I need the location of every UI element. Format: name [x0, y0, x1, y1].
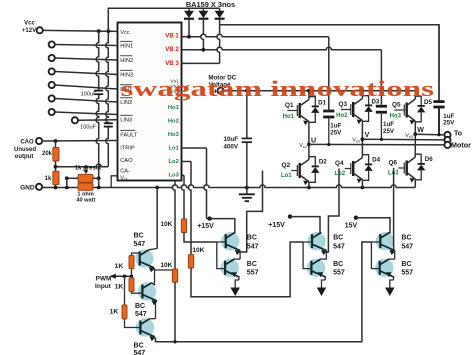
node U	[307, 143, 311, 147]
transistor BC547 chain2	[138, 282, 156, 300]
svg-text:Vcc: Vcc	[120, 30, 130, 36]
svg-text:1k: 1k	[45, 176, 52, 182]
transistor BC547 pair2	[307, 232, 325, 250]
wire VB3 line	[182, 62, 220, 64]
transistor BC557 pair2	[307, 259, 325, 277]
preset 1k wiper arrow	[85, 167, 87, 171]
svg-text:BC: BC	[134, 233, 144, 240]
node To Motor terminals	[444, 132, 450, 138]
svg-text:Ho2: Ho2	[336, 113, 348, 119]
wire DC+ bus	[224, 90, 416, 92]
svg-text:output: output	[15, 154, 34, 160]
svg-text:CAO: CAO	[120, 158, 133, 164]
wire Lo3 column	[182, 174, 185, 176]
svg-text:ITRIP: ITRIP	[120, 146, 135, 152]
transistor BC547 chain3	[136, 318, 154, 336]
node input terminal LIN1	[49, 82, 55, 88]
wire Vcc to IC	[43, 30, 118, 31]
svg-text:547: 547	[401, 243, 413, 250]
resistor 1k	[53, 171, 59, 185]
svg-text:D6: D6	[425, 156, 433, 163]
svg-text:25V: 25V	[383, 128, 395, 135]
diode BA159 D3t	[219, 8, 221, 11]
wire pair1 base bus	[217, 242, 226, 269]
transistor Q5 high side	[394, 109, 404, 111]
svg-text:BC: BC	[333, 235, 343, 242]
svg-text:Vs1: Vs1	[299, 143, 307, 149]
wire Vss stub	[111, 176, 117, 188]
svg-text:Lo3: Lo3	[168, 173, 179, 179]
node PWM input	[111, 275, 132, 277]
svg-text:Ho1: Ho1	[168, 105, 180, 111]
node input terminal HIN3	[49, 68, 55, 74]
node +15V supply flag	[354, 216, 358, 220]
svg-text:BC: BC	[134, 343, 144, 350]
diode D6	[415, 154, 421, 163]
preset 1k body	[78, 174, 93, 182]
svg-text:Vs2: Vs2	[352, 138, 360, 144]
ground pair1	[238, 277, 240, 280]
resistor R 1K a	[132, 253, 140, 256]
node input terminal HIN1	[49, 41, 55, 47]
wire chain2 emitter down	[155, 301, 157, 319]
svg-text:VB 1: VB 1	[165, 33, 179, 40]
svg-text:100uF: 100uF	[81, 92, 97, 98]
svg-text:Motor: Motor	[451, 141, 471, 150]
resistor 20k	[55, 141, 57, 148]
diode BA159 D1t	[188, 8, 190, 11]
svg-text:Ho2: Ho2	[168, 119, 179, 125]
svg-text:BC: BC	[333, 261, 343, 268]
svg-text:547: 547	[134, 241, 146, 248]
svg-text:VB 2: VB 2	[165, 46, 179, 53]
svg-text:Lo1: Lo1	[168, 146, 179, 152]
svg-text:Vs3: Vs3	[405, 133, 413, 139]
node W	[413, 132, 417, 136]
svg-text:Q4: Q4	[335, 160, 344, 167]
U1 right pin labels	[165, 33, 179, 179]
wire VB1 line	[182, 34, 329, 37]
svg-text:547: 547	[135, 311, 147, 318]
transistor BC557 pair1	[221, 259, 239, 277]
svg-text:swagatam innovations: swagatam innovations	[121, 76, 435, 101]
wire VB3 top rail to cell3	[220, 25, 439, 101]
svg-text:CA-: CA-	[120, 169, 130, 175]
wire pair2 base bus	[303, 242, 312, 269]
wire main ground rail	[42, 185, 415, 188]
svg-text:+12V: +12V	[22, 28, 36, 34]
svg-text:1uF: 1uF	[383, 121, 394, 128]
wire diode3 cathode drop	[217, 18, 220, 63]
svg-text:Q2: Q2	[282, 162, 291, 169]
svg-text:557: 557	[333, 270, 345, 277]
svg-text:CAO: CAO	[20, 140, 34, 146]
transistor Q6 low side	[398, 167, 404, 169]
transistor Q4 low side	[345, 168, 351, 170]
svg-text:1K: 1K	[110, 308, 119, 315]
svg-text:BC: BC	[401, 235, 411, 242]
svg-text:547: 547	[333, 243, 345, 250]
svg-text:Q1: Q1	[285, 102, 294, 109]
svg-text:BC: BC	[247, 261, 257, 268]
svg-text:BC: BC	[401, 261, 411, 268]
svg-text:Q3: Q3	[339, 101, 348, 108]
diode D3	[362, 96, 368, 105]
svg-text:HIN1: HIN1	[120, 44, 133, 50]
transistor BC547 chain1	[135, 249, 153, 267]
svg-text:BC: BC	[247, 235, 257, 242]
transistor Q2 low side	[291, 170, 297, 172]
svg-text:557: 557	[401, 270, 413, 277]
wire pair1 midpoint	[239, 251, 241, 260]
resistor 1 ohm 40 watt	[78, 183, 93, 190]
svg-text:LIN3: LIN3	[120, 118, 132, 124]
svg-text:10uF: 10uF	[224, 136, 239, 143]
wire left dropper 2 (Vcc to CA- line)	[106, 31, 109, 122]
svg-text:VB 3: VB 3	[165, 60, 179, 67]
transistor BC547 pair3	[376, 232, 394, 250]
svg-text:Q6: Q6	[389, 160, 398, 167]
svg-text:547: 547	[134, 350, 146, 355]
wire chain3 emitter to bottom bus	[156, 242, 372, 342]
svg-text:Lo2: Lo2	[334, 171, 345, 177]
svg-text:40 watt: 40 watt	[76, 198, 95, 204]
svg-text:1uF: 1uF	[330, 122, 341, 129]
transistor Q3 high side	[341, 109, 351, 111]
svg-text:V: V	[365, 132, 370, 139]
diode D1	[309, 97, 315, 106]
wire CA- line	[56, 164, 109, 167]
wire pair2 midpoint	[325, 251, 327, 260]
wire diode1 cathode drop	[188, 18, 190, 36]
wire diode2 cathode drop	[201, 18, 204, 49]
capacitor C1 100uF	[94, 90, 103, 92]
svg-text:Ho1: Ho1	[283, 114, 295, 120]
svg-text:400V: 400V	[224, 143, 239, 150]
wire diode anode rail	[108, 8, 219, 31]
svg-text:FAULT: FAULT	[120, 133, 138, 139]
node +15V supply flag	[208, 216, 212, 220]
svg-text:HIN2: HIN2	[120, 58, 133, 64]
wire VB2 line	[182, 47, 382, 50]
wire pair1 output to Lo1 gate	[240, 171, 262, 253]
op-amp U1 IC driver box	[118, 23, 182, 181]
resistor R 1K c	[124, 276, 126, 305]
capacitor C3 10uF 400V	[246, 91, 248, 138]
wire CAO line	[42, 140, 117, 143]
node input terminal HIN2	[49, 55, 55, 61]
svg-text:D2: D2	[319, 159, 327, 166]
capacitor C5 1uF 25V bootstrap	[380, 50, 382, 105]
diode D4	[362, 155, 368, 164]
node input terminal LIN2	[49, 95, 55, 101]
wire chain collector spine	[156, 188, 158, 249]
wire Lo1 column to +15V node	[182, 147, 207, 149]
diode D5	[415, 96, 421, 105]
svg-text:10K: 10K	[160, 221, 172, 228]
svg-text:15V: 15V	[345, 222, 358, 229]
ground earth symbol	[246, 188, 248, 195]
svg-text:D4: D4	[372, 157, 380, 164]
U1 left pin labels	[120, 30, 138, 182]
svg-text:547: 547	[247, 243, 259, 250]
svg-text:Q5: Q5	[392, 102, 401, 109]
wire 10K c bottom to bottom bus	[174, 282, 176, 342]
svg-text:+15V: +15V	[197, 223, 214, 230]
svg-text:100uF: 100uF	[80, 125, 96, 131]
svg-text:Lo1: Lo1	[281, 173, 292, 179]
ground pair2	[324, 277, 326, 280]
svg-text:20k: 20k	[42, 151, 53, 157]
svg-text:Lo2: Lo2	[168, 159, 178, 165]
capacitor C4 1uF 25V bootstrap	[328, 37, 330, 110]
capacitor C6 1uF 25V bootstrap	[438, 25, 440, 100]
wire chain1 emitter down	[154, 268, 156, 285]
svg-text:U: U	[311, 137, 316, 144]
transistor BC547 pair1	[221, 232, 239, 250]
diode BA159 D2t	[202, 8, 204, 11]
diode D2	[309, 157, 315, 166]
svg-text:557: 557	[247, 270, 259, 277]
svg-text:PWM: PWM	[96, 275, 112, 282]
resistor R 10K b	[188, 255, 193, 268]
wire pair3 output to Lo3 gate	[394, 168, 395, 252]
svg-text:25V: 25V	[330, 129, 342, 136]
svg-text:25V: 25V	[443, 119, 455, 126]
svg-text:Vcc: Vcc	[24, 21, 35, 27]
capacitor C2 100uF	[104, 122, 113, 124]
wire pair2 output to Lo2 gate	[326, 169, 339, 253]
svg-text:Input: Input	[95, 283, 112, 290]
svg-text:10K: 10K	[160, 262, 172, 269]
wire Lo2 column	[182, 161, 192, 163]
svg-text:1k preset: 1k preset	[75, 165, 101, 171]
svg-text:1K: 1K	[115, 284, 124, 291]
node V	[361, 137, 365, 141]
svg-text:1K: 1K	[115, 263, 124, 270]
node input terminal LIN3p	[49, 109, 55, 115]
svg-text:To: To	[454, 131, 462, 138]
ground pair3	[393, 277, 395, 280]
wire pair3 midpoint	[394, 251, 396, 260]
svg-text:BA159 X 3nos: BA159 X 3nos	[186, 0, 235, 9]
svg-text:+15V: +15V	[268, 222, 285, 229]
svg-text:BC: BC	[135, 303, 145, 310]
transistor BC557 pair3	[375, 259, 393, 277]
node input terminal LIN3	[72, 117, 78, 123]
svg-text:Unused: Unused	[14, 147, 36, 153]
svg-text:10K: 10K	[192, 247, 204, 254]
svg-text:W: W	[417, 127, 424, 134]
resistor R 10K c	[155, 269, 176, 270]
transistor Q1 high side	[287, 110, 297, 112]
wire pair3 base bus	[371, 242, 380, 269]
resistor R 1K b	[129, 278, 134, 292]
svg-text:Vss: Vss	[120, 176, 128, 182]
svg-text:Ho3: Ho3	[390, 114, 402, 120]
wire left dropper 1 (Vcc to preset)	[96, 31, 99, 90]
svg-text:Ho3: Ho3	[168, 132, 180, 138]
resistor R 10K a	[181, 219, 186, 233]
node +15V supply flag	[288, 214, 292, 218]
svg-text:GND: GND	[20, 184, 35, 191]
